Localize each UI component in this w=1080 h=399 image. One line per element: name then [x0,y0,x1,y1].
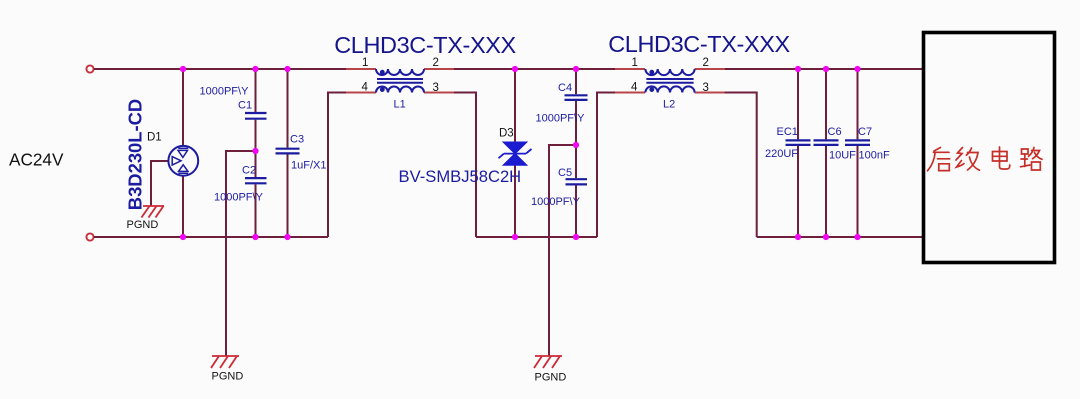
common-mode choke L2 [645,69,694,93]
svg-text:C5: C5 [558,167,572,179]
svg-text:EC1: EC1 [777,126,798,138]
svg-text:PGND: PGND [212,371,244,383]
pin stub L2 pin3 [695,92,725,94]
svg-text:1000PF\Y: 1000PF\Y [536,112,586,124]
junction dot D3 bottom [512,234,518,240]
wire C2 bottom [255,184,257,237]
svg-text:C3: C3 [290,133,304,145]
wire C1 branch [255,69,257,112]
svg-text:100nF: 100nF [859,150,890,162]
junction dot C4 top [573,66,579,72]
svg-text:L1: L1 [394,99,406,111]
wire D3 bottom [514,165,516,238]
wire D1 left to ground [151,161,169,206]
pin stub L1 pin1 [346,68,376,70]
svg-text:10UF: 10UF [829,150,856,162]
capacitor C3 [276,149,300,154]
svg-text:L2: L2 [663,99,675,111]
wire C3 branch bottom [287,154,289,237]
svg-text:C6: C6 [828,126,842,138]
junction dot C2 bottom [252,234,258,240]
pin stub L1 pin2 [424,68,454,70]
svg-text:CLHD3C-TX-XXX: CLHD3C-TX-XXX [608,31,790,57]
wire from L1 pin3 down [454,93,476,238]
electrolytic capacitor EC1 [786,140,811,145]
junction dot C7 bottom [854,234,860,240]
svg-text:C4: C4 [558,82,572,94]
ground PGND at D1 [142,206,165,218]
wire C4 branch [575,69,577,94]
capacitor C4 [565,95,588,100]
svg-text:1: 1 [362,57,368,69]
wire C6 branch bottom [825,146,827,237]
junction dot EC1 bottom [795,234,801,240]
svg-text:BV-SMBJ58C2H: BV-SMBJ58C2H [399,167,522,186]
junction dot C5 bottom [573,234,579,240]
polarity dot L1 top [380,70,385,75]
character 级 [956,148,980,171]
svg-text:D1: D1 [147,132,162,144]
svg-text:CLHD3C-TX-XXX: CLHD3C-TX-XXX [334,32,516,58]
svg-text:220UF: 220UF [765,148,798,160]
svg-text:2: 2 [703,57,709,69]
svg-text:B3D230L-CD: B3D230L-CD [125,99,146,210]
junction dot C4-C5 midpoint [573,142,579,148]
capacitor C7 [845,140,870,145]
gas discharge tube D1 [168,146,198,176]
svg-text:PGND: PGND [127,219,159,231]
junction dot D1 top [180,66,186,72]
svg-text:C7: C7 [858,126,872,138]
port bottom terminal [86,233,93,240]
junction dot C3 bottom [284,234,290,240]
wire D1 top [182,69,184,146]
junction dot D3 top [512,66,518,72]
junction dot C3 top [284,66,290,72]
svg-text:1000PF\Y: 1000PF\Y [214,191,264,203]
svg-text:C2: C2 [242,165,256,177]
capacitor C6 [814,140,839,145]
svg-text:C1: C1 [238,100,252,112]
svg-text:1: 1 [632,57,638,69]
svg-text:PGND: PGND [535,372,567,384]
character 路 [1021,148,1043,171]
wire top rail right [725,68,922,70]
svg-text:3: 3 [433,82,439,94]
pin stub L1 pin3 [424,92,454,94]
junction dot C6 bottom [823,234,829,240]
wire D3 top [514,69,516,142]
character 电 [993,147,1010,169]
wire mid to PGND crossing [226,151,256,356]
polarity dot L2 top [649,70,654,75]
ground PGND bottom-left [211,356,239,368]
capacitor C5 [566,179,588,184]
ground PGND bottom-middle [534,356,562,368]
wire top rail left [94,68,346,70]
junction dot C1 top [252,66,258,72]
wire C1-C2 mid [255,120,257,177]
svg-text:AC24V: AC24V [9,150,64,170]
wire C5 bottom [575,185,577,237]
svg-text:2: 2 [433,57,439,69]
wire top rail middle [454,68,615,70]
wire C6 branch top [825,69,827,139]
pin stub L2 pin4 [615,92,645,94]
text 后级电路 (drawn strokes) [928,147,1043,171]
wire bottom rail middle [476,236,597,238]
svg-text:1uF/X1: 1uF/X1 [291,159,326,171]
pin stub L2 pin1 [615,68,645,70]
capacitor C2 [245,178,267,183]
wire EC1 branch bottom [797,146,799,237]
wire C4-C5 mid [575,101,577,178]
svg-text:4: 4 [362,82,369,94]
svg-text:D3: D3 [499,128,514,140]
wire C7 branch top [857,69,859,139]
svg-text:1000PF\Y: 1000PF\Y [531,196,581,208]
wire C3 branch top [287,69,289,148]
block 后级电路 box [924,33,1055,263]
character 后 [928,148,950,171]
wire D1 bottom [182,176,184,237]
wire from L2 pin3 down [695,93,757,238]
wire bottom rail right [757,236,922,238]
wire riser to L2 pin4 [597,93,615,238]
capacitor C1 [245,113,267,119]
common-mode choke L1 [376,69,424,93]
junction dot EC1 top [795,66,801,72]
svg-text:1000PF\Y: 1000PF\Y [200,86,250,98]
junction dot C1-C2 midpoint [252,148,258,154]
wire C7 branch bottom [857,146,859,237]
polarity dot L1 bottom [380,87,385,92]
wire C4C5 mid to PGND2 [549,145,576,356]
wire EC1 branch top [797,69,799,139]
TVS diode D3 [499,142,532,164]
junction dot D1 bottom [180,234,186,240]
svg-text:4: 4 [631,82,638,94]
svg-text:3: 3 [703,82,709,94]
wire riser to L1 pin4 [328,93,346,238]
wire bottom rail left [94,236,328,238]
port top terminal [86,65,93,72]
pin stub L2 pin2 [695,68,725,70]
junction dot C6 top [823,66,829,72]
junction dot C7 top [854,66,860,72]
pin stub L1 pin4 [346,92,376,94]
polarity dot L2 bottom [649,87,654,92]
